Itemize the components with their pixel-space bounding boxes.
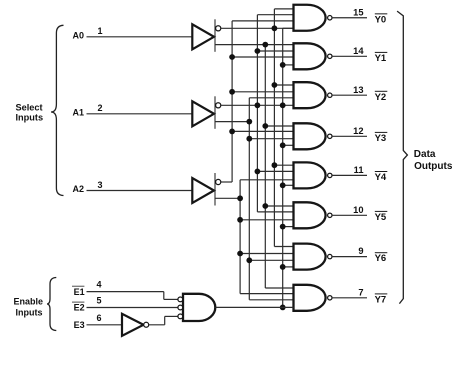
- svg-text:11: 11: [354, 165, 364, 175]
- wire output Y7: [332, 297, 367, 299]
- svg-text:Y5: Y5: [375, 212, 387, 223]
- wire gate4 input2: [232, 130, 293, 132]
- svg-text:2: 2: [97, 103, 102, 113]
- svg-text:E3: E3: [74, 320, 85, 330]
- bubble enable input 1: [178, 297, 183, 302]
- svg-text:15: 15: [353, 7, 363, 17]
- wire gate2 input3: [232, 56, 293, 58]
- wire gate8 input3: [249, 299, 293, 301]
- svg-text:Y3: Y3: [375, 133, 387, 144]
- inverter U4 (E3): [122, 314, 144, 336]
- nand gate G5 (Y4): [294, 162, 326, 188]
- junction gate7 input3 tap: [246, 257, 252, 263]
- wire output Y2: [332, 94, 367, 96]
- svg-text:Data: Data: [414, 149, 436, 160]
- bubble enable input 2: [178, 305, 183, 310]
- wire A0 true from bar to gate G2 input1: [215, 44, 294, 46]
- svg-text:14: 14: [353, 46, 364, 56]
- wire output Y5: [332, 214, 367, 216]
- svg-text:Select: Select: [16, 102, 43, 112]
- junction gate4 input4 tap: [280, 142, 286, 148]
- wire gate1 input3: [232, 20, 293, 22]
- wire gate6 input2: [257, 211, 293, 213]
- wire gate5 input4: [283, 184, 294, 186]
- junction gate2 input4 tap: [280, 62, 286, 68]
- wire gate4 input3: [249, 138, 293, 140]
- junction gate5 input4 tap: [280, 182, 286, 188]
- bus A1-bar vertical: [256, 15, 258, 212]
- junction gate3 input1 tap: [272, 82, 278, 88]
- wire gate8 input1: [265, 287, 293, 289]
- nand gate G6 (Y5): [294, 202, 326, 228]
- junction gate4 input1 tap: [262, 123, 268, 129]
- nand gate G7 (Y6): [294, 244, 326, 270]
- nand gate G1 (Y0): [294, 5, 326, 31]
- bubble enable input 3: [178, 314, 183, 319]
- inverter U1 (A0): [192, 24, 214, 49]
- junction gate6 input4 tap: [280, 224, 286, 230]
- wire gate5 input2: [257, 170, 293, 172]
- junction gate6 input1 tap: [262, 203, 268, 209]
- wire output Y0: [332, 17, 367, 19]
- wire A0-bar from bubble across to gate G1 input4: [221, 27, 294, 29]
- wire EN output to gate G8 input4: [215, 306, 293, 308]
- select inputs brace: [51, 25, 64, 195]
- bus A1 vertical: [248, 98, 250, 300]
- svg-text:Enable: Enable: [14, 296, 44, 306]
- svg-text:Inputs: Inputs: [16, 113, 44, 123]
- wire gate7 input4: [283, 266, 294, 268]
- svg-text:13: 13: [353, 85, 363, 95]
- junction gate6 input3 tap: [237, 217, 243, 223]
- junction gate2 input2 tap: [255, 48, 261, 54]
- wire A1 true from bar to bus: [215, 121, 249, 123]
- wire gate4 input1: [265, 125, 293, 127]
- svg-text:6: 6: [96, 313, 101, 323]
- wire gate6 input3: [240, 219, 293, 221]
- data outputs bracket: [397, 11, 407, 304]
- svg-text:Outputs: Outputs: [414, 161, 453, 172]
- wire gate7 input1: [274, 246, 293, 248]
- wire A0 input: [87, 36, 193, 38]
- junction gate5 input2 tap: [255, 169, 261, 175]
- svg-text:7: 7: [358, 287, 363, 297]
- junction A1 source: [246, 119, 252, 125]
- junction gate4 input3 tap: [246, 136, 252, 142]
- junction EN to Y7: [280, 305, 286, 311]
- wire gate1 input2: [257, 14, 293, 16]
- wire gate3 input2: [232, 91, 293, 93]
- svg-text:5: 5: [96, 296, 101, 306]
- wire gate6 input4: [283, 226, 294, 228]
- wire A2 true from bar to bus: [215, 197, 240, 199]
- wire output Y6: [332, 256, 367, 258]
- wire output Y3: [332, 135, 367, 137]
- svg-text:E2: E2: [74, 303, 85, 313]
- wire gate5 input3: [240, 179, 293, 181]
- nand gate G3 (Y2): [294, 82, 326, 108]
- wire gate3 input1: [274, 84, 293, 86]
- svg-text:E1: E1: [74, 287, 85, 297]
- bus EN vertical: [282, 28, 284, 307]
- junction gate2 input3 tap: [229, 54, 235, 60]
- nand gate G2 (Y1): [294, 43, 326, 69]
- wire gate2 input2: [257, 50, 293, 52]
- inverter U2 (A1): [192, 101, 214, 126]
- wire gate8 input2: [240, 293, 293, 295]
- wire E1: [87, 291, 164, 293]
- svg-text:Y4: Y4: [375, 172, 387, 183]
- nand gate G8 (Y7): [294, 285, 326, 311]
- junction A1-bar source: [255, 102, 261, 108]
- wire A1-bar from bubble across to gate G3 input4: [221, 104, 294, 106]
- junction EN tap gate3 input4: [280, 102, 286, 108]
- junction A2 source: [237, 195, 243, 201]
- svg-text:Y7: Y7: [375, 294, 387, 305]
- svg-text:A2: A2: [72, 184, 84, 194]
- bus A2 vertical: [239, 180, 241, 294]
- wire output Y4: [332, 174, 367, 176]
- svg-text:Y2: Y2: [375, 92, 387, 103]
- wire gate7 input3: [249, 259, 293, 261]
- junction gate5 input1 tap: [272, 162, 278, 168]
- svg-text:12: 12: [353, 126, 363, 136]
- bus A0 vertical: [264, 45, 266, 288]
- wire E3 inverted to AND input3: [149, 324, 165, 326]
- wire E3: [87, 324, 123, 326]
- svg-text:Y6: Y6: [375, 253, 387, 264]
- svg-text:Inputs: Inputs: [16, 307, 43, 317]
- wire gate1 input1: [274, 8, 293, 10]
- junction A0 source: [262, 42, 268, 48]
- bus A0-bar vertical: [273, 9, 275, 247]
- wire A1 input: [87, 113, 193, 115]
- svg-text:10: 10: [353, 205, 363, 215]
- junction gate3 input2 tap: [229, 89, 235, 95]
- wire gate3 input3: [249, 97, 293, 99]
- svg-text:4: 4: [96, 280, 101, 290]
- svg-text:Y0: Y0: [375, 14, 387, 25]
- svg-text:9: 9: [358, 246, 363, 256]
- junction gate7 input2 tap: [237, 251, 243, 257]
- wire gate4 input4: [283, 144, 294, 146]
- svg-text:A1: A1: [72, 108, 84, 118]
- wire gate2 input4: [283, 64, 294, 66]
- wire A2-bar from bubble to bus corner: [221, 181, 232, 183]
- wire gate7 input2: [240, 253, 293, 255]
- svg-text:1: 1: [97, 26, 102, 36]
- wire output Y1: [332, 55, 367, 57]
- svg-text:A0: A0: [72, 31, 84, 41]
- wire A2 input: [87, 190, 193, 192]
- and gate U5 (enable): [183, 294, 215, 321]
- junction A0-bar source: [272, 25, 278, 31]
- wire gate5 input1: [274, 164, 293, 166]
- inverter U3 (A2): [192, 178, 214, 203]
- wire E2: [87, 307, 178, 309]
- junction gate7 input4 tap: [280, 264, 286, 270]
- junction gate4 input2 tap: [229, 129, 235, 135]
- wire gate6 input1: [265, 205, 293, 207]
- bus A2-bar vertical: [231, 21, 233, 182]
- svg-text:Y1: Y1: [375, 53, 387, 64]
- wire gate1 input4: [283, 27, 294, 29]
- enable inputs brace: [47, 278, 56, 331]
- nand gate G4 (Y3): [294, 123, 326, 149]
- svg-text:3: 3: [97, 180, 102, 190]
